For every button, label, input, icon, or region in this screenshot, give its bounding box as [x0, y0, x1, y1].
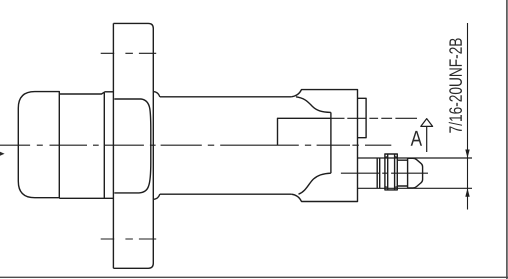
cap left end [18, 92, 59, 198]
tube bottom edge [153, 194, 291, 199]
dimension arrow top [465, 150, 469, 159]
border bottom [0, 276, 508, 278]
bolt hole centerline bottom [101, 238, 157, 240]
tube top edge [153, 92, 291, 97]
dimension arrow bottom [465, 188, 469, 197]
node axis arrow at left edge [0, 152, 5, 156]
hex chamfer arcs [385, 157, 397, 187]
dimension line vertical [467, 23, 469, 210]
threaded stub bottom edge + extension line [358, 187, 473, 189]
thread callout text 7/16-20UNF-2B [449, 38, 462, 132]
collar [104, 91, 113, 93]
flange [113, 23, 153, 268]
label A [411, 131, 422, 146]
threaded stub top edge + extension line [358, 157, 473, 159]
datum leader [426, 126, 428, 152]
flare cone [408, 158, 423, 188]
block inner throat vertical [330, 112, 332, 173]
wire main axis centerline [0, 144, 391, 146]
boot barrel behind flange [114, 99, 151, 193]
bolt hole centerline top [101, 52, 157, 54]
boss on block right [358, 98, 367, 137]
block inner ogee top [296, 97, 331, 113]
block inner ogee bottom [299, 173, 331, 194]
border right [506, 0, 508, 279]
flare base [407, 158, 409, 188]
hex nut [385, 154, 397, 190]
stub end verticals [377, 158, 380, 188]
block outer silhouette [291, 90, 357, 202]
hidden bore line to datum [332, 117, 418, 119]
fitting centerline [341, 172, 428, 174]
datum triangle A [421, 119, 433, 127]
fitting small cylinder [397, 160, 407, 186]
bore step [278, 118, 331, 145]
cylinder body left [59, 92, 113, 198]
